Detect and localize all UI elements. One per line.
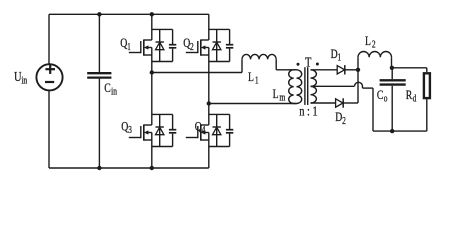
- wire top rail: [49, 13, 209, 15]
- wire centre tap drop to return rail: [372, 88, 374, 131]
- svg-text:in: in: [111, 85, 117, 96]
- svg-text:o: o: [384, 93, 388, 104]
- node C rectified node: [356, 68, 360, 72]
- wire node C to L2: [357, 57, 359, 70]
- junction Cin bottom: [97, 166, 101, 170]
- wire right leg Q4 source to bottom rail: [208, 133, 210, 169]
- transformer core: [305, 67, 308, 105]
- svg-text:L: L: [365, 35, 371, 49]
- svg-text:L: L: [248, 71, 254, 85]
- wire D1 cathode to node C: [345, 69, 358, 71]
- wire L2 to output node: [391, 57, 393, 68]
- wire Co branch top: [391, 68, 393, 79]
- transistor Q2: [186, 40, 209, 56]
- svg-text:3: 3: [128, 124, 132, 135]
- label Uin: [14, 68, 28, 85]
- junction top rail left leg: [150, 12, 154, 16]
- transformer T secondary winding: [311, 70, 317, 103]
- diode D1: [337, 65, 345, 74]
- label Q4: [195, 120, 206, 135]
- body diode of Q1: [156, 29, 164, 61]
- switch cell bars Q1: [152, 29, 173, 61]
- wire secondary return rail: [373, 130, 427, 132]
- wire left leg Q1 source to Q3 drain: [151, 48, 153, 126]
- switch cell bars Q4: [209, 114, 230, 146]
- inductor L2: [358, 51, 392, 57]
- capacitor Cin: [87, 73, 111, 77]
- snubber capacitor of Q3: [169, 114, 176, 146]
- svg-text:C: C: [377, 89, 384, 103]
- resistor Rd: [424, 73, 430, 98]
- junction bottom rail left leg: [150, 166, 154, 170]
- inductor L1: [242, 54, 276, 59]
- wire L1 to transformer top: [276, 59, 296, 69]
- wire secondary top to D1: [311, 69, 338, 71]
- wire output rail to Rd: [392, 68, 427, 72]
- svg-text:D: D: [335, 111, 342, 125]
- wire Co branch bottom: [391, 86, 393, 131]
- svg-text:R: R: [406, 89, 413, 103]
- svg-text:2: 2: [342, 115, 346, 126]
- magnetizing inductance Lm winding: [289, 70, 297, 104]
- node D output node: [390, 66, 394, 70]
- svg-text:T: T: [305, 54, 312, 70]
- label Q3: [121, 120, 132, 135]
- junction Co return: [390, 129, 394, 133]
- svg-text:4: 4: [202, 124, 206, 135]
- label Cin: [104, 82, 117, 97]
- label Lm: [273, 88, 286, 103]
- label Q2: [183, 37, 194, 52]
- voltage source Uin: [36, 64, 62, 90]
- wire right leg Q2 source to Q4 drain: [208, 48, 210, 126]
- snubber capacitor of Q4: [226, 114, 233, 146]
- capacitor Co: [380, 80, 406, 84]
- body diode of Q2: [213, 29, 221, 61]
- svg-text:in: in: [21, 74, 27, 85]
- wire left vertical (source top lead): [48, 14, 50, 64]
- svg-text:D: D: [331, 48, 338, 62]
- transistor Q1: [129, 40, 152, 56]
- wire Cin branch bottom: [98, 79, 100, 168]
- svg-text:1: 1: [255, 74, 259, 85]
- label Rd: [406, 89, 417, 104]
- polarity dot primary: [297, 63, 300, 66]
- body diode of Q3: [156, 114, 164, 146]
- wire node B to transformer bottom: [209, 103, 297, 105]
- snubber capacitor of Q1: [169, 29, 176, 61]
- polarity dot secondary: [316, 63, 319, 66]
- label L1: [248, 71, 259, 86]
- svg-text:n:1: n:1: [299, 103, 320, 119]
- svg-text:1: 1: [127, 41, 131, 52]
- body diode of Q4: [213, 114, 221, 146]
- node A left bridge midpoint: [150, 70, 154, 74]
- svg-text:d: d: [413, 93, 417, 104]
- wire bottom rail: [49, 167, 209, 169]
- wire right leg drain Q2: [208, 14, 210, 40]
- wire secondary bottom to D2: [311, 102, 336, 104]
- label D2: [335, 111, 346, 126]
- svg-text:L: L: [273, 88, 279, 102]
- wire D2 cathode riser to node C: [343, 70, 358, 103]
- snubber capacitor of Q2: [226, 29, 233, 61]
- svg-text:2: 2: [372, 39, 376, 50]
- wire left leg drain Q1: [151, 14, 153, 40]
- svg-text:2: 2: [190, 41, 194, 52]
- wire node A to L1: [152, 59, 242, 72]
- transistor Q4: [186, 125, 209, 141]
- label T: [305, 54, 312, 70]
- label Q1: [120, 37, 131, 52]
- wire Cin branch top: [98, 14, 100, 72]
- diode D2: [336, 98, 344, 107]
- junction Cin top: [97, 12, 101, 16]
- label Co: [377, 89, 388, 104]
- wire left leg Q3 source to bottom rail: [151, 133, 153, 169]
- node B right bridge midpoint: [207, 101, 211, 105]
- svg-text:U: U: [14, 68, 22, 84]
- transformer T primary winding: [297, 70, 302, 104]
- switch cell bars Q2: [209, 29, 230, 61]
- wire left vertical (source bottom lead): [48, 90, 50, 168]
- svg-text:1: 1: [337, 51, 341, 62]
- transistor Q3: [129, 125, 152, 141]
- label n:1: [299, 103, 320, 119]
- svg-text:C: C: [104, 82, 111, 96]
- label L2: [365, 35, 376, 50]
- label D1: [331, 48, 342, 63]
- wire Rd bottom lead: [426, 99, 428, 131]
- switch cell bars Q3: [152, 114, 173, 146]
- svg-text:m: m: [279, 92, 285, 103]
- wire centre tap with hop over riser: [311, 82, 374, 88]
